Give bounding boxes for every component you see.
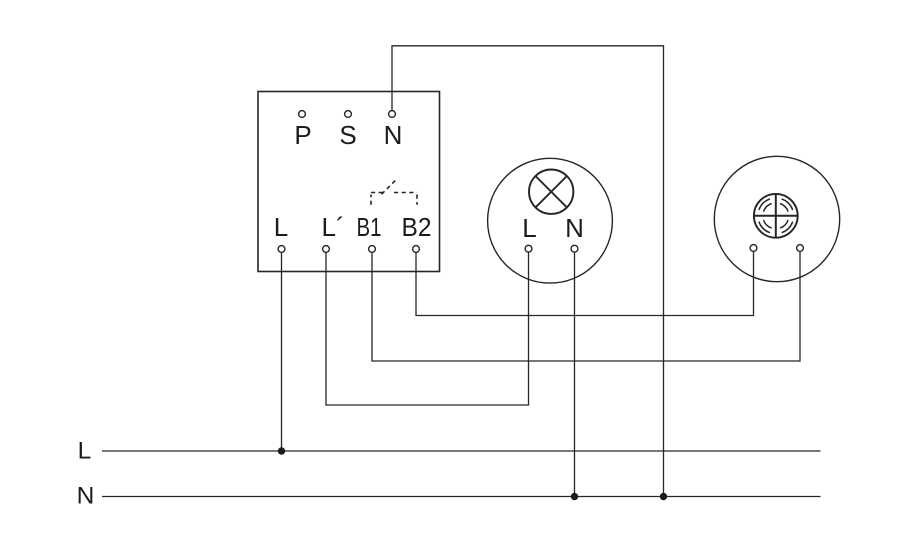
terminal L'	[323, 246, 330, 253]
lamp load E1 outline	[488, 158, 613, 283]
terminal S	[345, 111, 352, 118]
junction: lamp N to N bus	[571, 493, 578, 500]
junction: L terminal to L bus	[278, 447, 285, 454]
terminal B1	[369, 246, 376, 253]
wire L: box terminal L down to L bus	[281, 253, 283, 452]
terminal N	[389, 111, 396, 118]
wire L': box terminal L' to lamp terminal L	[326, 252, 529, 405]
fan load M1 outline	[714, 156, 839, 281]
internal relay contact (dashed) between B1 and B2	[371, 179, 417, 205]
svg-text:L: L	[274, 212, 288, 242]
wire B2: box terminal B2 to fan terminal 1	[416, 252, 754, 316]
svg-text:B2: B2	[402, 212, 432, 242]
terminal B2	[413, 246, 420, 253]
terminal P	[299, 111, 306, 118]
lamp symbol (circle with X)	[529, 170, 573, 214]
svg-text:B1: B1	[357, 212, 382, 242]
svg-text:N: N	[77, 483, 95, 510]
svg-text:S: S	[339, 120, 356, 150]
terminal L	[278, 246, 285, 253]
terminal L (lamp)	[525, 245, 532, 252]
fan symbol (circle with cross and arcs)	[754, 194, 798, 238]
wire: lamp terminal N down to N bus	[574, 252, 576, 496]
wire B1: box terminal B1 to fan terminal 2	[372, 252, 800, 362]
svg-text:L´: L´	[322, 212, 345, 242]
svg-text:L: L	[78, 438, 92, 465]
N bus wire	[102, 496, 821, 498]
control unit box U1	[258, 92, 440, 272]
L bus wire	[102, 450, 821, 452]
terminal 2 (fan)	[797, 245, 804, 252]
terminal N (lamp)	[571, 245, 578, 252]
svg-text:N: N	[565, 213, 584, 243]
wire N: box terminal N up over to N bus	[392, 46, 664, 497]
svg-text:N: N	[384, 120, 403, 150]
svg-text:L: L	[522, 213, 536, 243]
terminal 1 (fan)	[750, 245, 757, 252]
junction: box N wire to N bus	[660, 493, 667, 500]
svg-text:P: P	[294, 120, 311, 150]
